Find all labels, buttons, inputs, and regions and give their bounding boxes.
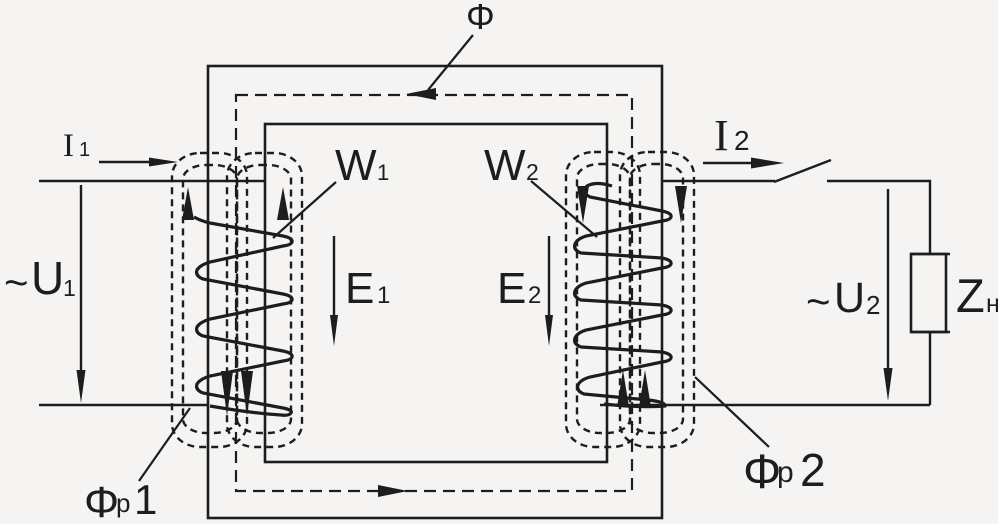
svg-text:1: 1 [377,160,389,185]
svg-text:1: 1 [134,476,157,523]
svg-text:I: I [714,111,729,160]
secondary top wire [662,180,775,182]
label I1 [63,128,90,164]
leakage arrow down right of W2 [675,186,687,223]
leakage flux loop outer-right of W1 [227,153,302,447]
svg-text:Φ: Φ [84,478,119,524]
leader line phi [428,35,473,90]
primary bottom wire [39,404,209,406]
svg-text:Z: Z [956,269,985,322]
label U2 [806,274,880,325]
label U1 [4,252,76,306]
leader line phi-p1 [139,408,190,481]
current I1 arrow [99,158,178,167]
svg-text:н: н [986,290,998,318]
leader line phi-p2 [695,377,769,447]
svg-text:1: 1 [63,275,76,301]
label phi [466,0,495,37]
voltage U1 arrow [77,185,86,403]
label W2 [484,141,539,190]
label phi-p2 [743,444,826,499]
leakage arrow up center-left of W2 [617,370,629,407]
label W1 [335,141,389,190]
svg-text:U: U [31,252,64,304]
leakage flux loop inner-left of W1 [183,165,237,433]
secondary bottom wire [600,404,930,406]
svg-text:р: р [116,488,130,518]
leakage arrow down center-left of W1 [221,371,233,416]
winding W2 coil [575,184,671,407]
flux arrow bottom rightward [378,485,408,497]
svg-text:Φ: Φ [466,0,495,37]
label phi-p1 [84,476,157,524]
current I2 arrow [703,158,784,169]
leakage flux loop outer-left of W1 [172,153,247,447]
svg-text:2: 2 [528,282,541,309]
secondary wire after switch [827,181,930,254]
leakage arrow up center-right of W2 [639,370,651,407]
svg-text:2: 2 [734,125,750,156]
leakage flux loop inner-right of W2 [630,164,683,433]
label Zn [956,269,998,322]
wire Zn to bottom [929,332,931,405]
svg-text:Φ: Φ [743,446,781,499]
svg-text:2: 2 [800,444,826,496]
emf E1 arrow [330,236,338,346]
svg-text:W: W [335,141,377,190]
svg-text:~: ~ [4,259,29,306]
leakage flux loop outer-right of W2 [620,152,694,447]
emf E2 arrow [545,236,553,346]
primary top wire [39,180,265,182]
leakage flux loop inner-left of W2 [577,164,630,433]
label E1 [345,264,390,313]
label I2 [714,111,750,160]
leakage arrow down center-right of W1 [241,371,253,416]
load Zn box [911,254,950,332]
leakage flux loop outer-left of W2 [566,152,640,447]
winding W1 coil [194,217,292,415]
label E2 [497,264,541,313]
core outer outline [208,66,662,518]
svg-text:E: E [345,264,374,313]
svg-text:W: W [484,141,526,190]
voltage U2 arrow [884,189,893,401]
leakage arrow up right of W1 [277,187,289,220]
svg-text:~: ~ [806,278,831,325]
flux arrow top leftward [406,88,436,100]
switch blade [774,160,831,182]
svg-text:E: E [497,264,526,313]
svg-text:I: I [63,128,74,164]
svg-text:U: U [834,274,865,322]
svg-text:р: р [777,456,794,489]
leader line W1 [273,182,336,238]
svg-text:1: 1 [377,282,390,309]
leakage flux loop inner-right of W1 [237,165,291,433]
leakage arrow up left of W1 [182,187,194,220]
leader line W2 [531,181,597,237]
svg-text:1: 1 [79,139,90,161]
core window inner outline [265,124,607,462]
leakage arrow down left of W2 [577,186,589,223]
main flux dashed loop [236,95,632,491]
svg-text:2: 2 [866,290,880,320]
